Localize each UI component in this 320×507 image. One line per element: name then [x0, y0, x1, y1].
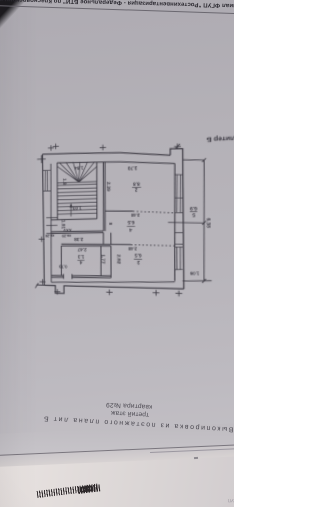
svg-text:кв.29: кв.29 [62, 234, 71, 238]
svg-text:4: 4 [79, 260, 82, 265]
svg-text:6.5: 6.5 [134, 253, 141, 259]
door 0.70 jambs [62, 274, 64, 279]
svg-text:1.84: 1.84 [74, 165, 84, 171]
kitchen wall cap [175, 232, 183, 234]
dim connector bottom [183, 280, 212, 282]
svg-text:2.40: 2.40 [127, 246, 137, 252]
left edge curvature shading [0, 0, 234, 507]
axis mark chimney [176, 144, 178, 150]
outer wall top (bowed) [42, 150, 170, 160]
footer organisation text [0, 0, 246, 8]
axis cross left top [40, 155, 42, 163]
outer wall right [183, 158, 184, 289]
axis cross bottom b [108, 289, 110, 295]
axis cross bottom a [56, 289, 58, 295]
WC room4 walls [60, 246, 62, 276]
window right wall W1 (room 2, double) [176, 175, 179, 213]
axis cross bottom d [178, 291, 180, 297]
svg-text:4: 4 [129, 227, 132, 232]
svg-text:1.8: 1.8 [62, 178, 67, 185]
stair winder fan [57, 166, 78, 183]
svg-text:5: 5 [192, 212, 196, 218]
vignette [0, 0, 234, 507]
faint mark bottom-right corner [224, 498, 234, 503]
stair walk-line arrow [70, 205, 72, 217]
main paper wedge above edge [0, 423, 244, 455]
svg-text:6.5: 6.5 [127, 220, 134, 225]
title line: vykopirovka [38, 414, 238, 433]
balcony top edge [183, 159, 204, 161]
dim ticks [202, 158, 206, 162]
svg-text:2.38: 2.38 [74, 237, 84, 242]
stair treads [57, 184, 97, 185]
inner top face [57, 159, 175, 167]
svg-text:3.70: 3.70 [127, 165, 137, 171]
outer wall bottom with porch step [36, 284, 44, 286]
svg-text:1.09: 1.09 [189, 271, 199, 277]
title line: kvartira 29 [79, 399, 179, 411]
svg-text:1.03: 1.03 [72, 205, 82, 210]
outer wall left [42, 154, 44, 285]
inner right face [174, 164, 176, 282]
paper bottom edge and under-paper area [0, 449, 234, 507]
door jambs hall/room3 [102, 233, 104, 245]
axis cross bottom c [155, 290, 157, 296]
window left wall (stair) [44, 171, 46, 191]
svg-text:1.77: 1.77 [101, 254, 106, 264]
axis cross top b [50, 145, 52, 151]
svg-text:2: 2 [134, 187, 137, 193]
footer rule line [0, 5, 244, 14]
faint second sheet edge right [150, 448, 240, 453]
svg-text:8.8: 8.8 [133, 181, 140, 187]
partition room2/kitchen: solid then dashed [105, 210, 133, 213]
svg-text:2.92: 2.92 [116, 254, 121, 264]
landing door lines [46, 217, 57, 219]
svg-text:2.39: 2.39 [106, 182, 111, 192]
inner left face [50, 164, 51, 283]
partition kitchen/room3: solid then dashed [61, 243, 131, 246]
paper edge line [0, 444, 244, 456]
axis cross top a [55, 144, 57, 150]
svg-text:2.40: 2.40 [130, 212, 140, 218]
svg-text:литер Б: литер Б [206, 134, 234, 142]
stairwell walls [56, 163, 59, 220]
axis cross top c [102, 145, 104, 151]
svg-text:кв.28: кв.28 [45, 234, 54, 238]
paper shading [0, 0, 234, 507]
small speck under edge [194, 457, 198, 459]
svg-text:3: 3 [137, 260, 140, 266]
svg-text:1.3: 1.3 [77, 254, 84, 259]
break mark bottom-left [35, 283, 38, 288]
svg-text:8: 8 [108, 222, 113, 225]
svg-text:XXV: XXV [63, 228, 72, 233]
svg-text:6.38: 6.38 [206, 218, 212, 228]
dark top-left corner wedge [0, 0, 234, 507]
wall stair zone / room 2 (double) [102, 162, 105, 231]
window right wall W3 [176, 247, 178, 270]
floor plan layer with perspective [2, 0, 241, 507]
svg-text:0.70: 0.70 [58, 264, 67, 269]
barcode [37, 484, 98, 498]
svg-text:6.9: 6.9 [189, 206, 197, 212]
hall wall A [51, 230, 103, 233]
axis cross left bottom [42, 279, 44, 284]
title line: third floor [80, 407, 180, 419]
tick line across wall [168, 221, 204, 224]
inner bottom face [51, 279, 175, 286]
chimney bump at top-right [170, 148, 183, 158]
dim line 6.38 vertical [203, 160, 205, 281]
axis cross left mid [41, 236, 43, 241]
svg-text:2.47: 2.47 [77, 247, 87, 252]
